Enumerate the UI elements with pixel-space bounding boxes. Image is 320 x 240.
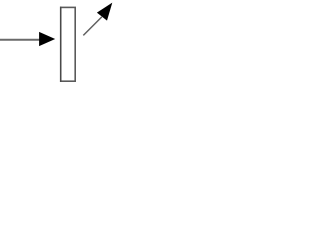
left edge accent of slab xyxy=(60,7,62,82)
optical-element diagram xyxy=(0,0,117,87)
wire (diagonal output line) xyxy=(83,17,102,36)
arrowhead (input arrow) xyxy=(39,32,55,46)
rectangle element (slab) xyxy=(61,7,75,81)
wire (horizontal input line) xyxy=(0,39,41,41)
arrowhead (diagonal output arrow) xyxy=(97,3,112,21)
